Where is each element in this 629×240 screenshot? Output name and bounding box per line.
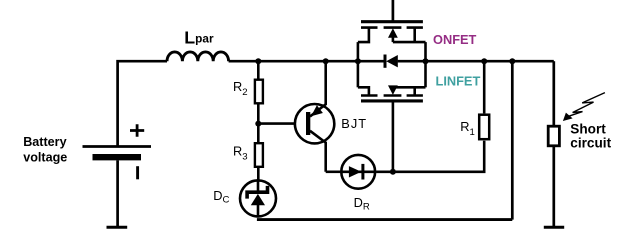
body diode triangle xyxy=(386,55,398,67)
body diode cathode bar xyxy=(384,55,387,68)
label Battery voltage xyxy=(23,135,67,164)
svg-text:Battery: Battery xyxy=(23,135,66,149)
svg-text:R3: R3 xyxy=(233,144,248,163)
linfet gate lead xyxy=(392,101,395,172)
node: rail junction at R2 xyxy=(255,58,261,64)
svg-text:DC: DC xyxy=(213,188,229,206)
svg-text:ONFET: ONFET xyxy=(433,32,477,47)
resistor R1 xyxy=(479,115,489,140)
label Short circuit xyxy=(570,121,611,150)
onfet source lead (right) xyxy=(393,28,426,42)
battery bottom terminal bar xyxy=(107,226,128,229)
svg-text:Short: Short xyxy=(570,121,606,136)
diode DR internal wire xyxy=(340,171,376,174)
node: rail junction at R1 xyxy=(481,58,487,64)
svg-text:DR: DR xyxy=(354,195,370,213)
linfet gate bar xyxy=(361,99,423,102)
svg-text:Lpar: Lpar xyxy=(184,27,214,47)
node: base tap junction xyxy=(255,121,261,127)
transistor BJT emitter lead with arrow xyxy=(310,61,326,116)
battery positive plate xyxy=(83,145,152,148)
label R2 xyxy=(233,79,248,98)
linfet drain lead (left) xyxy=(358,87,369,95)
battery plus sign xyxy=(130,124,144,136)
wire: DR line right segment to R1 branch xyxy=(376,141,484,172)
transistor BJT base bar xyxy=(306,112,310,135)
zener diode DC cathode bar with hooks xyxy=(247,186,267,199)
wire: top rail middle segment (inductor to body-diode cathode) xyxy=(229,60,385,63)
node: rail junction at BJT emitter xyxy=(323,58,329,64)
onfet body arrow xyxy=(388,28,398,42)
resistor R2 xyxy=(255,80,263,104)
svg-text:circuit: circuit xyxy=(570,136,611,151)
label BJT xyxy=(341,116,367,131)
onfet channel segments xyxy=(361,26,423,29)
resistor R3 xyxy=(255,143,263,167)
wire: short-circuit branch top lead xyxy=(552,61,555,125)
node: rail junction at return vertical xyxy=(509,58,515,64)
linfet source lead (right) xyxy=(393,87,426,95)
onfet gate lead xyxy=(392,0,395,22)
diode DR circle xyxy=(341,155,375,189)
wire: fet left rail xyxy=(357,42,360,87)
wire: fet right rail xyxy=(424,42,427,87)
onfet drain lead (left) xyxy=(358,28,369,42)
diode DR anode triangle xyxy=(349,166,361,177)
svg-text:R2: R2 xyxy=(233,79,248,98)
zener diode DC anode triangle xyxy=(251,194,265,205)
transistor BJT collector lead xyxy=(310,131,326,172)
onfet gate bar xyxy=(361,20,423,23)
transistor BJT circle xyxy=(295,104,334,143)
wire: short-circuit branch bottom lead xyxy=(552,147,555,227)
short-circuit resistor box xyxy=(548,126,559,146)
diode DR cathode bar xyxy=(361,164,364,180)
label DR xyxy=(354,195,370,213)
wire: R2 to R3 segment with base tap xyxy=(257,105,260,143)
node: rail junction at fet right rail xyxy=(423,58,429,64)
svg-text:BJT: BJT xyxy=(341,116,367,131)
svg-text:voltage: voltage xyxy=(23,150,67,164)
wire: battery negative lead xyxy=(116,160,119,226)
linfet channel segments xyxy=(361,94,423,97)
label ONFET xyxy=(433,32,477,47)
wire: R2 top lead xyxy=(257,61,260,78)
wire: top rail left segment (battery corner to inductor) xyxy=(118,61,167,146)
battery negative plate xyxy=(93,154,142,160)
inductor Lpar xyxy=(167,52,229,61)
label R3 xyxy=(233,144,248,163)
wire: R1 top lead xyxy=(483,61,486,113)
wire: BJT base wire xyxy=(258,122,306,125)
label Lpar xyxy=(184,27,214,47)
linfet body arrow xyxy=(388,85,398,95)
label DC xyxy=(213,188,229,206)
node: DR line junction at linfet gate xyxy=(390,169,396,175)
node: rail junction at fet left rail xyxy=(355,58,361,64)
label LINFET xyxy=(436,74,481,89)
lightning strike arrow xyxy=(563,93,605,121)
wire: top rail right segment (body-diode anode to short-circuit branch) xyxy=(398,60,554,63)
zener diode DC internal wire xyxy=(257,179,260,217)
short-circuit bottom terminal bar xyxy=(544,226,564,229)
svg-text:LINFET: LINFET xyxy=(436,74,481,89)
wire: right return vertical xyxy=(511,61,514,219)
wire: DR line left segment xyxy=(326,171,340,174)
wire: bottom rail xyxy=(257,218,512,221)
zener diode DC circle xyxy=(240,180,276,216)
label R1 xyxy=(460,119,475,138)
svg-text:R1: R1 xyxy=(460,119,475,138)
battery minus tick xyxy=(136,166,139,179)
wire: R3 to DC zener xyxy=(257,168,260,181)
